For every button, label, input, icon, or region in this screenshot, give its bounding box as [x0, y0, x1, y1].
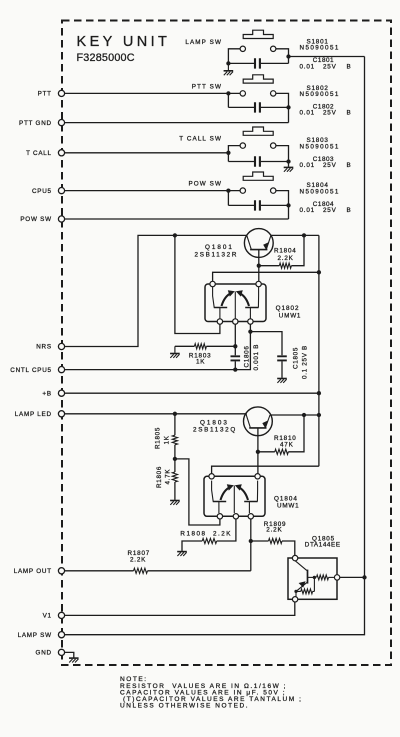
dashed enclosure frame of KEY UNIT — [62, 21, 391, 666]
svg-text:R1806: R1806 — [156, 466, 163, 488]
wire right contact S1803 to ground — [276, 146, 289, 167]
svg-text:KEY UNIT: KEY UNIT — [77, 34, 171, 50]
svg-text:25V: 25V — [323, 162, 337, 169]
wire LAMP LED line to Q1803 — [65, 413, 247, 415]
terminal LAMP OUT — [58, 568, 64, 574]
resistor R1804 2.2K — [259, 265, 280, 267]
resistor R1805 1K (vertical) — [174, 414, 176, 435]
svg-text:N5090051: N5090051 — [300, 45, 340, 52]
resistor R1810 47K — [258, 451, 275, 453]
svg-text:POW SW: POW SW — [20, 216, 51, 223]
capacitor C1803 — [228, 161, 254, 163]
switch S1801 LAMP SW (push button) — [243, 30, 273, 38]
capacitor C1804 — [228, 204, 254, 206]
wire R1805 junction to Q1804 pin1 — [175, 459, 220, 525]
svg-text:UNLESS OTHERWISE NOTED.: UNLESS OTHERWISE NOTED. — [120, 703, 249, 710]
svg-text:NRS: NRS — [36, 344, 52, 351]
wire T CALL line — [65, 152, 229, 154]
svg-text:B: B — [347, 162, 352, 169]
terminal +B — [58, 390, 64, 396]
node: Q1801 base / R1804 — [257, 264, 261, 268]
node: PTT line to S1802 — [226, 91, 230, 95]
terminal CPU5 — [58, 188, 64, 194]
svg-text:R1805: R1805 — [155, 427, 162, 449]
terminal PTT GND — [58, 120, 64, 126]
svg-text:LAMP OUT: LAMP OUT — [14, 568, 52, 575]
wire S1801 output to LAMP SW loop (right rail) — [289, 56, 365, 58]
terminal NRS — [58, 343, 64, 349]
svg-text:C1805: C1805 — [292, 347, 299, 369]
node: S1802/C1802 junction — [286, 105, 290, 109]
svg-text:2.2K: 2.2K — [266, 527, 282, 534]
svg-text:1K: 1K — [196, 358, 205, 365]
svg-text:CNTL CPU5: CNTL CPU5 — [10, 367, 52, 374]
transistor Q1801 2SB1132R — [244, 229, 273, 258]
node: R1809 junction — [249, 539, 253, 543]
dual transistor Q1802 UMW1 (package) — [205, 284, 266, 322]
svg-text:B: B — [347, 63, 352, 70]
wire PTT GND line — [65, 122, 289, 124]
node: T CALL junction — [226, 151, 230, 155]
switch S1804 POW SW (push button) — [243, 172, 273, 180]
wire right contact S1802 down to PTT GND line — [276, 93, 289, 122]
node: S1801 output junction — [286, 54, 290, 58]
node: S1803 ground junction — [286, 159, 290, 163]
wire Q1805 output to LAMP SW loop — [340, 576, 365, 578]
svg-text:F3285000C: F3285000C — [77, 52, 135, 64]
resistor R1809 2.2K — [269, 538, 283, 543]
resistor R1808 2.2K — [217, 519, 236, 541]
switch S1802 PTT SW (push button) — [243, 75, 273, 83]
wire branch to Q1802 pin 1 — [175, 235, 220, 333]
svg-text:0.001 B: 0.001 B — [253, 344, 260, 371]
svg-text:DTA144EE: DTA144EE — [305, 542, 341, 549]
svg-text:N5090051: N5090051 — [300, 188, 340, 195]
svg-text:0.1 25V B: 0.1 25V B — [302, 345, 309, 379]
wire Q1801 emitter to +B rail — [271, 234, 319, 236]
svg-text:0.01: 0.01 — [300, 162, 315, 169]
svg-text:R1808 2.2K: R1808 2.2K — [180, 530, 232, 537]
svg-text:2.2K: 2.2K — [278, 255, 294, 262]
svg-text:N5090051: N5090051 — [300, 91, 340, 98]
terminal V1 — [58, 612, 64, 618]
svg-text:B: B — [347, 110, 352, 117]
svg-text:C1806: C1806 — [244, 345, 251, 367]
svg-text:Q1802: Q1802 — [276, 305, 300, 312]
ground — [284, 166, 294, 168]
wire left contact S1801 to ground node — [228, 49, 240, 64]
svg-text:0.01: 0.01 — [300, 63, 315, 70]
node: R1803/C1806 junction — [233, 344, 237, 348]
svg-text:UMW1: UMW1 — [277, 502, 299, 509]
wire left contact S1803 to T CALL line — [228, 146, 240, 162]
svg-text:0.01: 0.01 — [300, 110, 315, 117]
svg-text:V1: V1 — [43, 613, 52, 620]
wire S1804 left drop to C1804 — [227, 191, 229, 206]
svg-text:LAMP SW: LAMP SW — [18, 632, 52, 639]
resistor R1806 4.7K (vertical) — [174, 459, 176, 472]
capacitor C1801 — [228, 62, 254, 64]
svg-text:25V: 25V — [323, 110, 337, 117]
svg-text:UMW1: UMW1 — [279, 312, 301, 319]
svg-text:1K: 1K — [163, 435, 170, 444]
wire LAMP OUT line — [65, 570, 134, 572]
node: C1806 to CNTL CPU5 line — [233, 367, 237, 371]
ground — [177, 551, 187, 553]
terminal GND — [58, 649, 64, 655]
svg-text:LAMP SW: LAMP SW — [185, 39, 222, 46]
wire CNTL CPU5 line to Q1802 pin3 — [65, 324, 251, 369]
transistor Q1803 2SB1132Q — [244, 407, 273, 436]
svg-text:25V: 25V — [323, 63, 337, 70]
terminal PTT — [58, 90, 64, 96]
node: Q1805 to loop rail — [362, 575, 366, 579]
node: S1801 ground junction — [226, 61, 230, 65]
switch S1803 T CALL SW (push button) — [243, 127, 273, 135]
node: R1804 to emitter wire — [302, 233, 306, 237]
ground at GND terminal — [65, 652, 74, 657]
capacitor C1805 0.1 25V B — [277, 356, 287, 360]
svg-text:POW SW: POW SW — [188, 181, 222, 188]
wire POW SW line — [65, 218, 289, 220]
svg-text:0.01: 0.01 — [300, 207, 315, 214]
svg-text:PTT: PTT — [38, 91, 52, 98]
ground — [174, 346, 176, 353]
terminal CNTL CPU5 — [58, 367, 64, 373]
svg-text:T CALL: T CALL — [26, 150, 52, 157]
node: CPU5 line to S1804 — [226, 188, 230, 192]
resistor R1807 2.2K (series in LAMP OUT) — [134, 568, 148, 573]
svg-text:LAMP LED: LAMP LED — [15, 411, 52, 418]
digital transistor Q1805 DTA144EE (package) — [288, 558, 337, 599]
svg-text:N5090051: N5090051 — [300, 143, 340, 150]
resistor R1803 1K — [175, 345, 195, 347]
svg-text:PTT SW: PTT SW — [192, 84, 222, 91]
svg-text:R1804: R1804 — [274, 247, 297, 254]
wire Q1801 base down to Q1802 — [258, 250, 260, 282]
svg-text:PTT GND: PTT GND — [19, 120, 52, 127]
wire S1802 left drop to C1802 — [227, 93, 229, 107]
svg-text:B: B — [347, 207, 352, 214]
node: LAMP LED / R1805 — [173, 412, 177, 416]
svg-text:+B: +B — [42, 390, 51, 397]
wire Q1803 base down to Q1804 — [257, 428, 259, 474]
node: C1805 branch — [248, 329, 252, 333]
svg-text:Q1801: Q1801 — [205, 244, 234, 251]
node: R1810 junction — [302, 413, 306, 417]
capacitor C1802 — [228, 106, 254, 108]
wire Q1804 emitters to +B rail — [212, 466, 319, 473]
node: S1804/C1804 junction — [286, 203, 290, 207]
svg-text:T CALL SW: T CALL SW — [179, 136, 222, 143]
dual transistor Q1804 UMW1 (package) — [204, 476, 265, 516]
svg-text:47K: 47K — [280, 441, 294, 448]
wire Q1802 emitters to +B rail — [213, 272, 319, 281]
svg-text:GND: GND — [36, 650, 52, 657]
svg-text:2.2K: 2.2K — [130, 557, 146, 564]
ground — [277, 378, 287, 380]
ground — [227, 63, 229, 70]
terminal T CALL — [58, 150, 64, 156]
wire V1 line to Q1805 emitter pin — [65, 602, 295, 615]
terminal LAMP LED — [58, 411, 64, 417]
capacitor C1806 0.001 B — [231, 356, 241, 360]
wire C1805 branch — [250, 332, 282, 356]
wire PTT line — [65, 92, 241, 94]
ground — [170, 500, 180, 502]
wire CPU5 line — [65, 190, 241, 192]
+B rail (vertical) — [318, 235, 320, 466]
wire Q1804 pin3 to LAMP OUT — [250, 519, 252, 571]
svg-text:Q1804: Q1804 — [274, 495, 298, 502]
wire Q1803 emitter to +B rail — [270, 414, 319, 416]
svg-text:25V: 25V — [323, 207, 337, 214]
wire right contact S1804 down to POW SW line — [276, 191, 289, 219]
wire LAMP SW loop (right rail + bottom) — [65, 57, 365, 635]
svg-text:4.7K: 4.7K — [165, 469, 172, 485]
svg-text:Q1803: Q1803 — [200, 419, 229, 426]
node: R1805/R1806 junction — [173, 457, 177, 461]
svg-text:CPU5: CPU5 — [32, 188, 52, 195]
node: NRS / Q1802 pin1 branch — [173, 233, 177, 237]
node: Q1803 base / R1810 — [256, 450, 260, 454]
node: +B to rail — [317, 391, 321, 395]
svg-text:2SB1132Q: 2SB1132Q — [193, 427, 237, 434]
wire Q1802 pin2 down — [234, 324, 236, 355]
node: Q1803 emitter to rail — [317, 413, 321, 417]
wire +B line — [65, 392, 319, 394]
terminal LAMP SW — [58, 632, 64, 638]
node: emitters to rail — [317, 270, 321, 274]
terminal POW SW — [58, 216, 64, 222]
svg-text:2SB1132R: 2SB1132R — [195, 251, 239, 258]
wire right contact S1801 to bus — [276, 49, 289, 64]
Q1805 internals — [295, 561, 307, 571]
wire NRS line up to Q1801 collector — [65, 235, 247, 346]
